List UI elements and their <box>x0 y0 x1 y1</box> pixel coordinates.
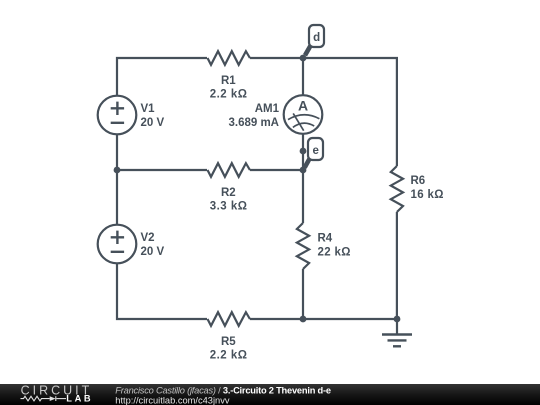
wire node e down to R4 <box>302 170 304 223</box>
wire R1 right to node d <box>250 57 303 59</box>
wire R5 right to bottom node <box>250 318 303 320</box>
resistor R1 <box>208 51 250 65</box>
svg-text:20 V: 20 V <box>141 117 165 129</box>
resistor R6 <box>391 166 403 212</box>
logo symbol: wire, resistor zigzag, diode, wire <box>21 396 67 401</box>
voltage source V1 <box>98 96 137 135</box>
svg-text:AM1: AM1 <box>255 103 280 115</box>
node dot left junction <box>114 167 121 174</box>
ground <box>382 319 412 346</box>
svg-text:e: e <box>312 145 318 157</box>
footer bar <box>0 384 540 405</box>
svg-text:Francisco Castillo (jfacas) /: Francisco Castillo (jfacas) / 3.-Circuit… <box>115 386 331 396</box>
svg-text:R5: R5 <box>221 336 236 348</box>
svg-text:20 V: 20 V <box>141 246 165 258</box>
wire node d to top-right corner, down to R6 top <box>303 58 397 166</box>
svg-text:R1: R1 <box>221 75 236 87</box>
svg-text:R2: R2 <box>221 187 236 199</box>
svg-text:3.689 mA: 3.689 mA <box>228 117 279 129</box>
node dot bottom junction <box>300 316 307 323</box>
wire V1 bottom stub to junction <box>116 134 118 170</box>
voltage source V2 <box>98 225 137 264</box>
wire bottom node to ground node <box>303 318 397 320</box>
wire R6 bottom to ground node <box>396 212 398 319</box>
wire top-left: V1 top stub, corner, to R1 left <box>117 58 207 96</box>
wire R2 right to node e <box>250 169 303 171</box>
ammeter AM1 <box>284 95 323 134</box>
svg-text:2.2 kΩ: 2.2 kΩ <box>210 89 248 101</box>
svg-text:16 kΩ: 16 kΩ <box>411 189 444 201</box>
resistor R2 <box>208 163 250 177</box>
svg-text:R6: R6 <box>411 175 426 187</box>
svg-text:d: d <box>313 32 320 44</box>
wire V2 bottom, corner, to R5 left <box>117 263 207 319</box>
wire ammeter drop from node d <box>302 58 304 95</box>
resistor R5 <box>208 312 250 326</box>
resistor R4 <box>297 223 309 269</box>
svg-text:3.3 kΩ: 3.3 kΩ <box>210 201 248 213</box>
net flag e <box>305 138 323 168</box>
svg-text:LAB: LAB <box>66 394 93 404</box>
svg-text:V1: V1 <box>141 103 156 115</box>
wire ammeter bottom to node e junction <box>302 134 304 170</box>
net flag d <box>305 25 324 55</box>
svg-text:2.2 kΩ: 2.2 kΩ <box>210 350 248 362</box>
node e junction dot <box>300 167 307 174</box>
node dot ground junction <box>394 316 401 323</box>
svg-text:22 kΩ: 22 kΩ <box>318 247 351 259</box>
svg-text:http://circuitlab.com/c43jnvv: http://circuitlab.com/c43jnvv <box>115 395 230 405</box>
wire junction down to V2 top <box>116 170 118 225</box>
svg-text:A: A <box>298 98 308 114</box>
node d junction dot <box>300 55 307 62</box>
node dot at ammeter bottom <box>300 148 307 155</box>
svg-text:V2: V2 <box>141 232 155 244</box>
wire R4 bottom to bottom node <box>302 269 304 319</box>
svg-text:R4: R4 <box>318 233 333 245</box>
wire middle row from left junction to R2 <box>117 169 207 171</box>
